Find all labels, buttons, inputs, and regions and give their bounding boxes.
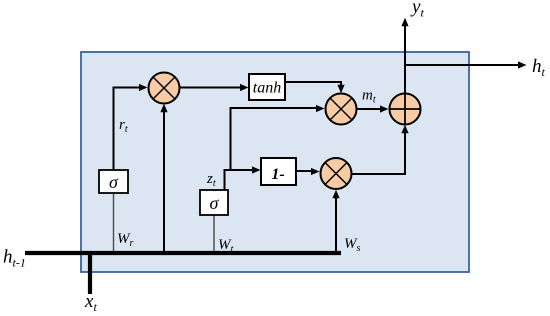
svg-text:σ: σ (109, 172, 119, 192)
label r_t (119, 117, 128, 135)
multiplier node M3 (321, 158, 352, 189)
wire one-minus to multiplier M3 (296, 168, 320, 175)
wire z_t from sigma update to one-minus box (225, 166, 261, 190)
wire r_t from sigma reset to multiplier M1 (114, 84, 148, 170)
label x_t (84, 291, 97, 314)
svg-text:xt: xt (84, 291, 97, 314)
svg-text:ht: ht (532, 56, 546, 79)
svg-text:σ: σ (210, 193, 220, 213)
wire M3 to adder (right then up) (352, 125, 409, 174)
wire from bus up into multiplier M1 (160, 104, 167, 251)
wire tanh to multiplier M2 (over the top) (285, 82, 345, 93)
wire x_t input (88, 251, 92, 294)
multiplier node M1 (149, 73, 180, 104)
label W_s (344, 236, 361, 254)
wire y_t output (401, 18, 408, 94)
svg-text:1-: 1- (271, 166, 284, 183)
label y_t (410, 0, 424, 20)
tanh box (249, 74, 285, 100)
wire z_t branch up to multiplier M2 (231, 105, 325, 170)
wire h_t-1 bus (25, 251, 341, 255)
label h_t-1 (3, 247, 26, 270)
label z_t (206, 171, 216, 189)
cell body box (81, 52, 469, 272)
wire W_t from bus to sigma update box (213, 215, 215, 251)
label h_t (532, 56, 546, 79)
svg-text:yt: yt (410, 0, 424, 20)
wire M2 to adder (357, 105, 389, 112)
svg-text:ht-1: ht-1 (3, 247, 26, 270)
wire W_r from bus to sigma reset box (113, 193, 115, 251)
wire h_t output (405, 61, 527, 68)
multiplier node M2 (326, 94, 357, 125)
svg-text:tanh: tanh (253, 80, 281, 97)
sigma gate box (update) (200, 190, 228, 215)
sigma gate box (reset) (99, 170, 128, 193)
label W_t (218, 237, 234, 255)
label m_t (362, 88, 376, 106)
one-minus box (261, 158, 296, 185)
label W_r (117, 231, 134, 249)
adder node (390, 94, 421, 125)
wire M1 to tanh (180, 84, 249, 91)
wire W_s from bus up into multiplier M3 (332, 190, 339, 251)
